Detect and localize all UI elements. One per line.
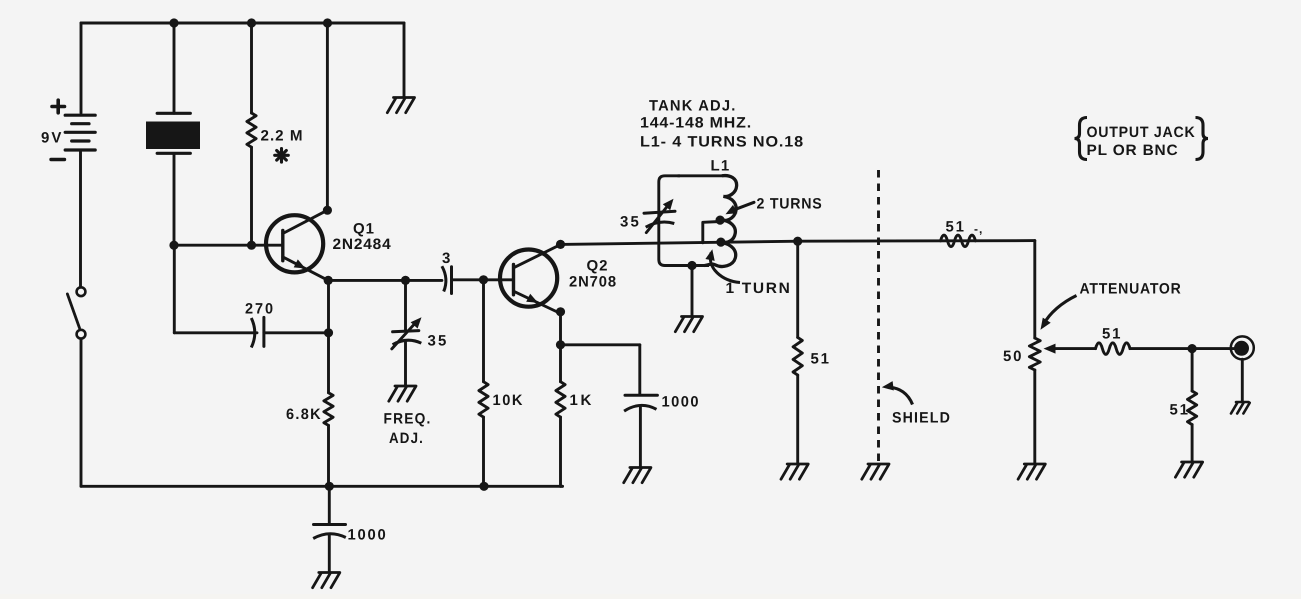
svg-text:1000: 1000 — [348, 527, 388, 544]
capacitor 1000 bypass curved plate — [624, 405, 656, 411]
node junction Q2 base 10K — [479, 275, 488, 284]
ground output jack — [1231, 402, 1250, 414]
output jack outer ring — [1231, 336, 1254, 359]
label ATTENUATOR with arrow — [1041, 281, 1182, 330]
svg-text:3: 3 — [442, 250, 451, 267]
label OUTPUT JACK line1 — [1087, 124, 1196, 141]
label PL OR BNC line2 — [1087, 142, 1179, 159]
label 51 shunt value — [811, 350, 831, 367]
wire output corner down — [1033, 241, 1036, 338]
output jack center pin — [1234, 341, 1249, 356]
capacitor 270 curved plate — [251, 318, 254, 348]
svg-text:50: 50 — [1003, 348, 1023, 365]
wire freq-adj cap to ground — [404, 341, 407, 385]
node junction 6.8K bottom rail — [325, 482, 334, 491]
wire rail to crystal — [173, 23, 176, 113]
wire right 51 to ground — [1191, 425, 1194, 461]
node junction 2.2M to rail — [247, 18, 256, 27]
label 51 wiper value — [1102, 326, 1122, 343]
wire Q1 emitter node — [328, 279, 442, 282]
wire crystal node down — [173, 245, 176, 333]
capacitor 3 straight plate — [450, 267, 453, 294]
svg-text:ATTENUATOR: ATTENUATOR — [1080, 281, 1182, 298]
capacitor 3 curved plate — [442, 266, 446, 291]
wire Q1 base node — [174, 244, 283, 247]
label 1K value — [570, 392, 594, 409]
label SHIELD with arrow — [882, 381, 951, 427]
wire 3 cap to Q2 base — [452, 278, 514, 281]
wire tank top — [678, 174, 722, 177]
potentiometer wiper arrow — [1044, 344, 1056, 354]
label 35 tank value — [620, 213, 641, 230]
crystal Y1 body — [146, 122, 200, 150]
capacitor freq-adj curved plate — [393, 340, 422, 345]
wire emitter node to freq-adj cap — [404, 280, 407, 331]
wire emitter to 1000 bypass cap — [561, 343, 640, 346]
svg-text:Q2: Q2 — [587, 258, 609, 275]
resistor 51 wiper — [1096, 343, 1131, 355]
crystal Y1 top plate — [157, 112, 190, 115]
wire rail right drop to ground — [403, 23, 406, 97]
svg-text:51: 51 — [811, 350, 831, 367]
switch S1 bottom contact — [77, 330, 86, 339]
resistor 51 right shunt — [1188, 391, 1197, 425]
wire 1K top lead — [559, 345, 562, 382]
wire 1K to bottom rail — [561, 417, 563, 486]
wire 51 shunt top lead — [796, 241, 799, 337]
label 2N708 — [569, 274, 617, 291]
node junction 51 shunt — [793, 237, 802, 246]
wire Q1 collector riser — [326, 23, 329, 210]
svg-text:10K: 10K — [493, 392, 525, 409]
label 50 value — [1003, 348, 1023, 365]
capacitor 1000 bypass straight plate — [625, 394, 657, 397]
wire Q1 emitter down — [327, 280, 330, 392]
wire Q2 collector output line — [561, 241, 1035, 245]
transistor Q2 collector lead — [514, 245, 561, 268]
label OUTPUT JACK brace left — [1075, 118, 1088, 160]
wire 51 shunt to ground — [796, 375, 799, 463]
node junction 51 shunt right — [1188, 344, 1197, 353]
wire bottom rail to 1000 cap — [328, 486, 331, 524]
node junction Q1 collector to rail — [323, 18, 332, 27]
wire Q2 emitter down — [559, 312, 562, 345]
ground right 51 — [1175, 462, 1202, 477]
label 1 TURN with arrow — [705, 249, 791, 297]
resistor 51 shunt — [793, 337, 802, 375]
svg-text:PL OR BNC: PL OR BNC — [1087, 142, 1179, 159]
ground tank — [675, 317, 702, 332]
node junction 2.2M base — [247, 241, 256, 250]
wire 2.2M to Q1 base node — [250, 147, 253, 245]
switch S1 top contact — [77, 287, 86, 296]
wire 1000 cap to ground — [328, 535, 331, 572]
wire 50 pot to ground — [1033, 370, 1036, 463]
svg-text:144-148 MHZ.: 144-148 MHZ. — [640, 115, 752, 132]
label 51 series value — [946, 218, 966, 235]
wire tank bottom — [0, 0, 1, 1]
resistor 6.8K — [324, 393, 333, 426]
wire 6.8K to bottom rail — [327, 425, 330, 486]
shield partition dashed line — [877, 170, 880, 462]
node Q1 emitter junction — [324, 276, 333, 285]
svg-text:2N2484: 2N2484 — [333, 236, 392, 253]
wire right 51 top lead — [1191, 349, 1194, 391]
label 1000 decoupling value — [348, 527, 388, 544]
wire battery positive drop — [80, 23, 83, 113]
label 2.2 M value — [261, 128, 304, 145]
wire tank left branch — [659, 176, 709, 266]
svg-text:2N708: 2N708 — [569, 274, 617, 291]
svg-text:-,: -, — [974, 222, 983, 236]
ground top rail — [387, 98, 414, 113]
svg-text:35: 35 — [620, 213, 641, 230]
wire 51 wiper to jack — [1130, 347, 1236, 350]
label Q2 — [587, 258, 609, 275]
label 2N2484 — [333, 236, 392, 253]
resistor 51 series — [941, 235, 976, 247]
resistor 2.2M — [247, 113, 256, 147]
wire crystal to Q1 base node — [173, 154, 176, 246]
capacitor freq-adj arrow — [392, 317, 422, 349]
battery BT1 9V plates — [65, 115, 95, 150]
svg-text:SHIELD: SHIELD — [892, 410, 951, 427]
svg-text:51: 51 — [946, 218, 966, 235]
wire Q2 base node down — [482, 280, 485, 382]
resistor 1K — [556, 382, 565, 417]
node Q1 collector junction — [323, 206, 332, 215]
label 35 freq-adj value — [428, 332, 449, 349]
label 144-148 MHZ. — [640, 115, 752, 132]
node junction 270 emitter branch — [324, 328, 333, 337]
wire tank ground stub — [691, 266, 694, 316]
wire 270 cap to emitter branch — [264, 331, 329, 334]
node Q2 emitter junction — [556, 307, 565, 316]
transistor Q1 body circle — [266, 215, 323, 272]
svg-text:ADJ.: ADJ. — [389, 430, 424, 447]
inductor L1 coil — [705, 176, 737, 267]
label L1 — [711, 157, 731, 174]
svg-text:OUTPUT JACK: OUTPUT JACK — [1087, 124, 1196, 141]
svg-text:1000: 1000 — [662, 393, 701, 410]
resistor 10K — [479, 382, 488, 417]
node junction tank ground stub — [687, 261, 696, 270]
svg-text:270: 270 — [245, 301, 275, 318]
switch S1 lever — [67, 294, 79, 328]
label 1000 bypass value — [662, 393, 701, 410]
wire bypass cap top lead — [638, 345, 641, 395]
wire bottom ground rail — [81, 485, 563, 488]
svg-text:51: 51 — [1102, 326, 1122, 343]
svg-text:1K: 1K — [570, 392, 594, 409]
wire bypass cap to ground — [639, 406, 642, 467]
footnote marks after 51 — [974, 222, 983, 236]
transistor Q1 collector lead — [283, 210, 328, 233]
wire 10K to bottom rail — [482, 417, 485, 486]
capacitor 270 straight plate — [262, 317, 265, 346]
battery 9V value label — [41, 130, 63, 147]
label OUTPUT JACK brace right — [1196, 118, 1209, 160]
transistor Q2 base bar — [512, 265, 515, 295]
potentiometer 50 element — [1029, 338, 1040, 370]
svg-text:51: 51 — [1170, 402, 1190, 419]
label L1- 4 TURNS NO.18 — [640, 134, 804, 151]
node freq-adj branch junction — [401, 276, 410, 285]
label 2 TURNS with arrow — [726, 195, 823, 214]
transistor Q1 emitter arrow — [294, 259, 306, 268]
wire switch to bottom rail — [80, 339, 83, 487]
svg-text:35: 35 — [428, 332, 449, 349]
node Q2 collector junction — [556, 240, 565, 249]
capacitor 1000 decoupling curved plate — [313, 534, 346, 539]
label 6.8K value — [286, 406, 322, 423]
capacitor tank 35 straight plate — [644, 211, 675, 213]
label Q1 — [353, 221, 375, 238]
transistor Q2 emitter arrow — [526, 294, 538, 303]
capacitor tank 35 curved plate — [646, 222, 675, 227]
wire jack to ground — [1241, 359, 1244, 401]
ground shield — [862, 464, 889, 479]
svg-text:TANK ADJ.: TANK ADJ. — [649, 97, 737, 114]
ground 50 pot — [1018, 464, 1045, 479]
label TANK ADJ. — [649, 97, 737, 114]
wire rail to 2.2M — [250, 23, 253, 113]
node L1 two-turn tap — [716, 216, 725, 225]
capacitor freq-adj straight plate — [393, 331, 419, 332]
node junction crystal base — [169, 241, 178, 250]
ground bottom 1000 — [313, 573, 340, 588]
svg-text:9V: 9V — [41, 130, 63, 147]
node junction crystal to rail — [169, 18, 178, 27]
transistor Q2 body circle — [500, 250, 557, 307]
ground 51 shunt — [781, 464, 808, 479]
asterisk footnote mark — [275, 149, 289, 163]
node junction 1K bypass — [556, 340, 565, 349]
battery plus label — [52, 100, 65, 113]
svg-text:L1- 4 TURNS NO.18: L1- 4 TURNS NO.18 — [640, 134, 804, 151]
ground freq-adj — [389, 386, 416, 401]
wire two-turn tap step — [703, 222, 720, 243]
node L1 one-turn tap — [716, 238, 725, 247]
node junction 10K bottom rail — [479, 482, 488, 491]
wire wiper lead — [1052, 347, 1096, 350]
label 10K value — [493, 392, 525, 409]
svg-text:2.2 M: 2.2 M — [261, 128, 304, 145]
wire battery to switch — [79, 150, 82, 287]
battery minus label — [51, 158, 65, 161]
ground 1000 bypass — [624, 468, 651, 483]
label 51 right value — [1170, 402, 1190, 419]
capacitor tank 35 arrow — [646, 199, 673, 233]
transistor Q1 base bar — [281, 230, 284, 260]
svg-text:6.8K: 6.8K — [286, 406, 322, 423]
label 270 value — [245, 301, 275, 318]
transistor Q1 emitter lead — [283, 257, 328, 281]
label ADJ. — [389, 430, 424, 447]
capacitor 1000 decoupling straight plate — [314, 523, 346, 526]
wire top supply rail — [81, 22, 404, 25]
label FREQ. — [384, 410, 432, 427]
svg-text:FREQ.: FREQ. — [384, 410, 432, 427]
crystal Y1 bottom plate — [157, 152, 190, 155]
svg-text:2 TURNS: 2 TURNS — [757, 195, 823, 212]
transistor Q2 emitter lead — [514, 291, 561, 313]
label 3 value — [442, 250, 451, 267]
svg-text:L1: L1 — [711, 157, 731, 174]
wire to 270 cap — [174, 331, 257, 334]
